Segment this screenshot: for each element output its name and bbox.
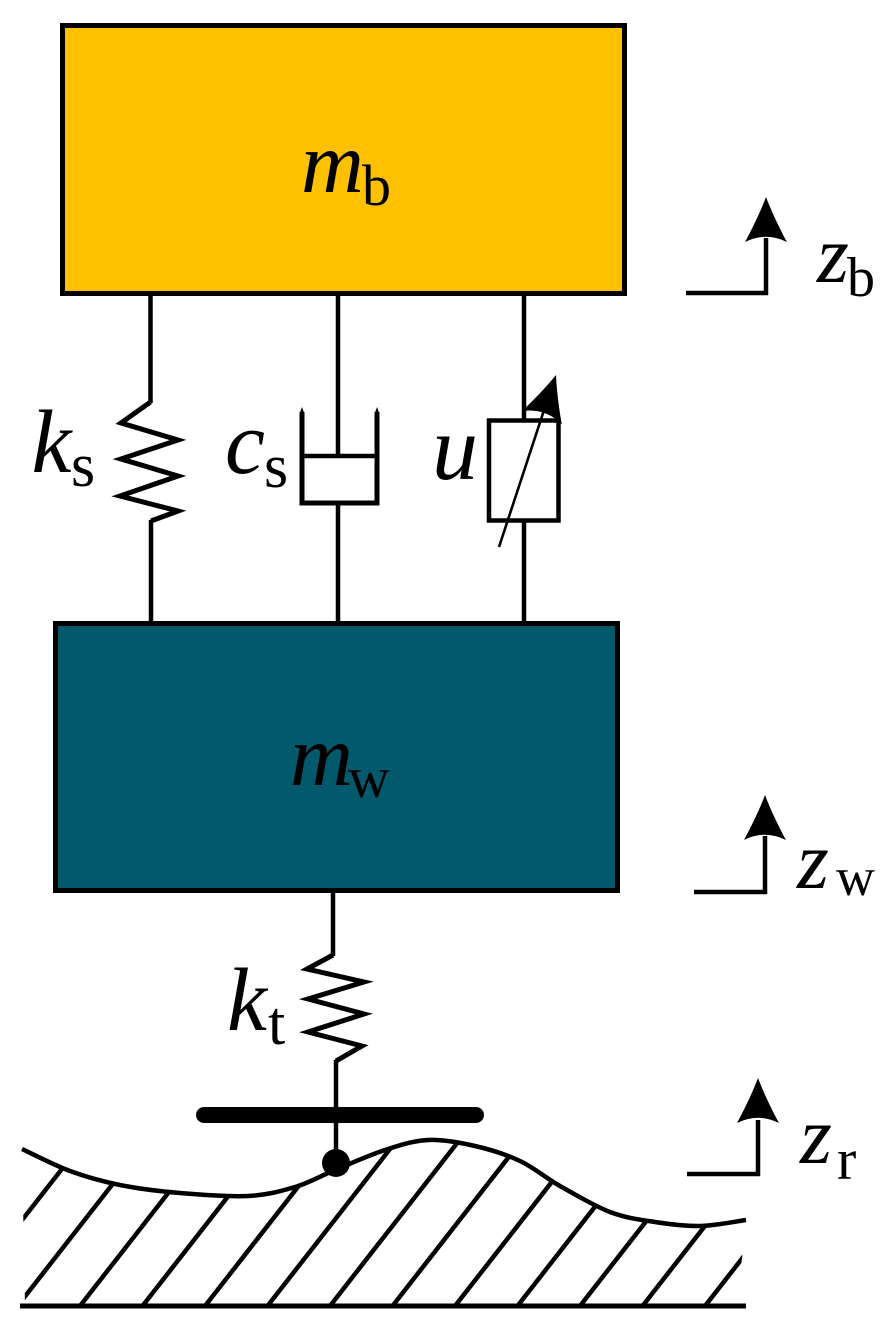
wire from m_b to spring k_s bbox=[148, 294, 153, 403]
actuator u rod upper bbox=[522, 294, 527, 422]
wire from m_w to spring k_t bbox=[331, 889, 336, 956]
svg-text:r: r bbox=[837, 1127, 856, 1192]
svg-text:k: k bbox=[32, 393, 74, 492]
svg-text:s: s bbox=[264, 433, 288, 501]
axis marker z_w shaft bbox=[763, 836, 768, 894]
svg-text:s: s bbox=[71, 432, 95, 500]
svg-text:w: w bbox=[836, 847, 875, 907]
contact point dot bbox=[322, 1149, 350, 1177]
axis marker z_r arrowhead bbox=[737, 1078, 779, 1123]
svg-text:b: b bbox=[362, 153, 391, 218]
damper cup left wall tip bbox=[300, 407, 305, 414]
svg-text:b: b bbox=[847, 247, 875, 309]
axis marker z_w horizontal bbox=[694, 890, 767, 895]
svg-text:z: z bbox=[799, 1090, 832, 1181]
road base line bbox=[20, 1304, 746, 1309]
damper cup right wall tip bbox=[375, 407, 380, 414]
svg-text:m: m bbox=[301, 114, 364, 211]
svg-text:w: w bbox=[348, 745, 390, 810]
wire from spring k_t to contact point bbox=[334, 1060, 339, 1163]
damper c_s rod upper bbox=[336, 294, 341, 456]
actuator u body bbox=[489, 421, 559, 521]
wire from spring k_s to m_w bbox=[149, 520, 154, 623]
svg-text:z: z bbox=[816, 209, 849, 300]
svg-text:z: z bbox=[796, 815, 829, 906]
damper c_s piston plate bbox=[302, 454, 377, 459]
svg-text:u: u bbox=[432, 397, 478, 499]
axis marker z_b horizontal bbox=[686, 291, 768, 296]
actuator u arrowhead bbox=[522, 368, 576, 424]
mass block m_b bbox=[63, 26, 625, 294]
svg-text:c: c bbox=[225, 394, 265, 493]
axis marker z_b arrowhead bbox=[745, 197, 787, 242]
road surface curve bbox=[22, 1140, 746, 1226]
actuator u diagonal shaft bbox=[499, 395, 549, 547]
svg-text:m: m bbox=[290, 707, 353, 804]
spring k_t bbox=[307, 955, 364, 1061]
damper c_s rod lower bbox=[336, 503, 341, 623]
spring k_s bbox=[120, 402, 178, 521]
axis marker z_w arrowhead bbox=[744, 795, 786, 840]
axis marker z_r shaft bbox=[756, 1120, 761, 1176]
axis marker z_b shaft bbox=[764, 238, 769, 295]
axis marker z_r horizontal bbox=[687, 1172, 760, 1177]
actuator u rod lower bbox=[522, 520, 527, 623]
svg-text:k: k bbox=[227, 951, 269, 1050]
mass block m_w bbox=[56, 624, 618, 891]
tire contact bar bbox=[204, 1107, 476, 1123]
damper c_s cup bbox=[302, 412, 377, 503]
svg-text:t: t bbox=[268, 990, 285, 1058]
